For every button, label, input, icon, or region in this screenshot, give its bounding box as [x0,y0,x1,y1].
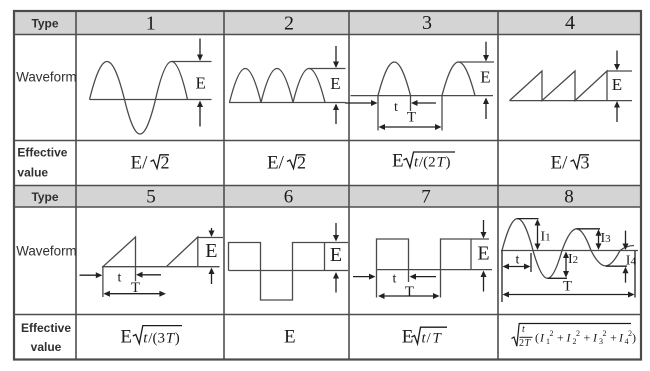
svg-text:+: + [584,331,591,345]
dimension ticks below axis [377,96,379,131]
svg-text:value: value [17,166,48,180]
dimension arrows E wf3 [483,42,489,119]
svg-text:/(2: /(2 [419,155,436,171]
svg-text:E/: E/ [267,153,285,174]
t dimension wf5 [80,271,162,286]
svg-text:I1: I1 [541,230,551,245]
dimension arrows E wf5 [209,228,215,284]
svg-text:3: 3 [581,153,590,173]
square path [229,243,349,301]
svg-text:E/: E/ [551,153,569,174]
svg-text:8: 8 [564,187,574,208]
peak level line [459,61,495,63]
svg-text:E: E [612,75,622,94]
dimension arrows E wf2 [333,46,339,124]
ramp 1 [103,237,136,281]
axis [90,99,212,101]
type numbers [146,12,575,208]
svg-text:Type: Type [31,16,58,30]
E tick [324,243,326,271]
waveform 4: sawtooth [510,71,633,101]
svg-text:I2: I2 [568,252,578,267]
peak level line [607,70,632,72]
svg-text:E: E [477,243,489,265]
svg-text:E: E [120,327,132,348]
formula E/sqrt3 col4 [551,153,590,174]
horizontal row lines [14,34,641,36]
pulse 2 top [441,239,490,270]
axis [351,95,494,97]
svg-text:2: 2 [576,329,580,338]
t dimension wf3 [345,100,436,115]
peak level line [309,68,346,70]
axis [229,102,346,104]
svg-text:3: 3 [422,12,432,34]
pulse 1 [377,239,409,270]
axis [510,100,633,102]
formula E/sqrt2 col1 [131,153,170,174]
svg-text:2: 2 [573,337,577,346]
svg-text:): ) [446,155,451,171]
gray header band row Type 5-8 [14,186,641,208]
damped sine curve [502,219,634,279]
header column labels [16,16,77,354]
svg-text:7: 7 [421,187,431,208]
svg-text:T: T [407,110,416,126]
svg-text:4: 4 [565,12,575,34]
svg-text:t: t [118,271,122,286]
svg-text:): ) [632,331,636,345]
I1 marker [517,219,551,250]
svg-text:T: T [405,284,414,300]
formula sqrt(t/2T)(I1^2+...) col4 [512,324,637,350]
svg-text:E: E [480,68,490,87]
dimension arrows E wf4 [614,51,620,123]
formula E/sqrt2 col2 [267,153,306,174]
svg-text:T: T [563,279,572,295]
svg-text:(: ( [535,331,539,345]
humps [230,69,326,103]
peak level line [172,61,212,63]
waveform 8: damped sine [501,219,638,279]
svg-text:E: E [392,151,404,172]
svg-text:2: 2 [550,329,554,338]
teeth [510,71,608,101]
t dimension wf7 [353,272,436,287]
waveform 7: rectangular pulse train [377,239,493,298]
svg-text:E: E [205,240,217,262]
axis [229,270,349,272]
axis [102,266,220,268]
I4 marker [606,231,637,283]
T dimension wf8 [503,251,636,298]
waveform 6: square wave [229,243,349,301]
E tick [470,239,472,270]
svg-text:6: 6 [284,187,294,208]
svg-text:2: 2 [519,338,524,349]
svg-text:E: E [330,74,340,93]
svg-text:Waveform: Waveform [16,244,77,259]
svg-text:1: 1 [546,337,550,346]
svg-text:+: + [557,331,564,345]
axis [501,250,638,252]
svg-text:2: 2 [603,329,607,338]
sine curve [90,61,188,134]
svg-text:Type: Type [31,190,58,204]
gray header band row Type 1-4 [14,11,641,35]
svg-text:Waveform: Waveform [16,70,77,85]
svg-text:T: T [131,280,140,296]
I2 marker [548,252,579,279]
formula E sqrt(t/(2T)) col3 [392,151,455,172]
svg-text:3: 3 [599,337,603,346]
formula E col2 [284,327,296,348]
svg-text:E: E [284,327,296,348]
svg-text:+: + [610,331,617,345]
waveform 3: half-sine pulses [351,62,495,131]
svg-text:2: 2 [284,13,294,35]
svg-text:5: 5 [146,187,156,208]
svg-text:): ) [175,331,180,347]
waveform 1: sine [90,61,212,134]
t dimension wf8 [502,251,531,303]
svg-text:4: 4 [625,337,629,346]
T dimension wf3 [379,110,442,131]
vertical column lines [75,11,77,360]
T dimension wf5 [103,280,165,297]
T dimension wf7 [378,284,440,300]
pulse humps [378,62,411,96]
formula E sqrt(t/(3T)) col1 [120,326,182,348]
I3 marker [577,229,612,250]
svg-text:E: E [330,244,342,266]
svg-text:t: t [522,324,525,335]
peak level line [198,237,223,239]
dimension arrows E wf7 [481,220,487,292]
svg-text:2: 2 [161,153,170,173]
svg-text:value: value [31,340,62,354]
waveform 2: full-wave rectified sine [229,69,346,103]
svg-text:t: t [393,272,397,287]
dimension arrows E wf6 [333,223,339,293]
axis [377,269,493,271]
svg-text:t: t [394,100,398,115]
svg-text:1: 1 [146,13,156,35]
svg-text:E: E [196,74,206,93]
svg-text:Effective: Effective [17,146,67,160]
svg-text:t: t [516,253,520,268]
T tick below start [102,267,104,297]
ramp 2 [166,237,198,267]
dimension arrows E wf1 [197,39,203,127]
svg-text:E/: E/ [131,153,149,174]
svg-text:2: 2 [297,153,306,173]
svg-text:Effective: Effective [21,321,71,335]
formula E sqrt(t/T) col3 [402,327,447,348]
svg-text:/(3: /(3 [148,331,165,347]
dimension ticks below axis [376,270,378,298]
waveform 5: triangle ramps [102,237,223,297]
svg-text:I3: I3 [601,231,612,246]
